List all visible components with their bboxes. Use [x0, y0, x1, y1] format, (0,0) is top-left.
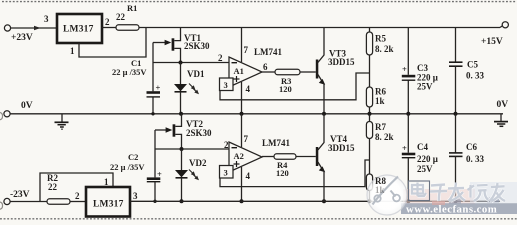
svg-text:0. 33: 0. 33: [466, 154, 485, 164]
svg-text:2SK30: 2SK30: [184, 41, 210, 51]
svg-text:22 μ /35V: 22 μ /35V: [110, 162, 145, 172]
svg-text:C5: C5: [467, 60, 478, 70]
op-amp A1 LM741: [229, 57, 262, 87]
resistor R2: [47, 199, 70, 204]
capacitor C1: [147, 91, 161, 94]
char 友: [490, 183, 506, 201]
svg-text:LM317: LM317: [93, 200, 124, 210]
svg-text:+: +: [156, 83, 161, 93]
transistor VT4 3DD15 (NPN): [316, 147, 319, 166]
svg-text:4: 4: [246, 84, 251, 94]
svg-text:8. 2k: 8. 2k: [375, 132, 394, 142]
wire -15V rail: [130, 200, 500, 202]
regulator U1 LM317 (top): [57, 14, 102, 43]
svg-text:3DD15: 3DD15: [328, 57, 355, 67]
svg-text:+: +: [402, 143, 407, 153]
svg-text:LM317: LM317: [63, 25, 94, 35]
node VD1/0V: [179, 112, 183, 116]
svg-text:220 μ: 220 μ: [417, 154, 438, 164]
svg-text:VD2: VD2: [189, 158, 207, 168]
node pin3 box A2: [220, 166, 234, 179]
svg-text:3: 3: [224, 80, 228, 90]
wire LM317-2 adj pin1: [40, 173, 113, 202]
wire reference node (bottom): [155, 148, 229, 150]
wire A1 pin7 to +15V rail: [241, 28, 243, 63]
svg-text:R6: R6: [375, 87, 386, 97]
capacitor C2: [147, 177, 161, 180]
svg-text:1k: 1k: [375, 185, 385, 195]
svg-text:3: 3: [224, 168, 228, 178]
capacitor C5: [455, 28, 457, 63]
svg-text:120: 120: [276, 168, 289, 178]
svg-text:22: 22: [116, 12, 126, 22]
svg-text:7: 7: [244, 45, 249, 55]
svg-text:LM741: LM741: [254, 47, 282, 57]
svg-text:C3: C3: [417, 63, 428, 73]
transistor VT3 3DD15 (NPN): [316, 60, 319, 79]
svg-text:7: 7: [244, 134, 249, 144]
wire feedback top: A1 pin3 to R5/R6 junction: [220, 73, 370, 100]
svg-text:A2: A2: [234, 151, 244, 161]
resistor R8: [366, 174, 372, 191]
diode VD2 (LED reference): [181, 149, 183, 170]
svg-text:LM741: LM741: [262, 138, 290, 148]
char 子: [430, 185, 447, 202]
transistor VT2 2SK30 (JFET): [155, 129, 167, 131]
svg-text:C4: C4: [417, 142, 428, 152]
transistor VT1 2SK30 (JFET): [153, 42, 166, 44]
svg-text:3DD15: 3DD15: [328, 143, 355, 153]
diode VD1 (LED reference): [180, 63, 182, 85]
svg-text:22: 22: [48, 182, 58, 192]
char 电 box: [409, 181, 430, 201]
terminal -23V: [4, 198, 10, 204]
svg-text:2: 2: [105, 17, 110, 27]
wire R2 to LM317 pin2: [70, 201, 86, 203]
svg-text:C6: C6: [466, 142, 477, 152]
resistor R3: [275, 69, 300, 74]
char 电: [412, 183, 426, 197]
wire feedback bottom: A2 pin3 to R7/R8 junction: [220, 160, 370, 187]
svg-text:2: 2: [218, 53, 223, 63]
capacitor C6: [455, 114, 457, 153]
wire LM317 pin2 to R1: [102, 27, 116, 29]
wire R3 to VT3 base: [300, 71, 316, 73]
svg-text:+: +: [157, 169, 162, 179]
svg-text:3: 3: [44, 14, 49, 24]
node pin3 box A1: [220, 78, 234, 91]
wire 0V rail: [10, 113, 503, 115]
svg-text:25V: 25V: [417, 82, 433, 92]
node ref-top junction: [179, 61, 183, 65]
svg-text:6: 6: [263, 62, 268, 72]
svg-text:0. 33: 0. 33: [466, 71, 485, 81]
svg-text:1: 1: [104, 177, 109, 187]
wire A2 pin7 to 0V: [241, 114, 243, 147]
terminal 0V left: [4, 111, 10, 117]
char 发: [448, 183, 465, 202]
svg-text:www.elecfans.com: www.elecfans.com: [406, 203, 497, 215]
svg-text:120: 120: [279, 84, 292, 94]
resistor R1: [116, 25, 139, 30]
svg-text:0V: 0V: [21, 101, 33, 111]
svg-text:-23V: -23V: [10, 190, 30, 200]
wire LM317 adj pin1: [79, 28, 146, 58]
svg-text:+15V: +15V: [481, 37, 503, 47]
svg-text:C2: C2: [128, 152, 138, 162]
regulator U2 LM317 (bottom): [86, 187, 130, 217]
wire reference node (top): [153, 62, 229, 64]
svg-text:3: 3: [133, 191, 138, 201]
svg-text:2: 2: [224, 140, 229, 150]
wire -23V to R2: [10, 201, 47, 203]
svg-text:25V: 25V: [417, 164, 433, 174]
svg-text:A1: A1: [234, 66, 244, 76]
resistor R7: [369, 114, 371, 122]
wire R4 to VT4 base: [296, 156, 316, 158]
capacitor C3: [407, 28, 409, 75]
svg-text:R7: R7: [375, 122, 386, 132]
capacitor C4: [407, 114, 409, 153]
resistor R5: [369, 28, 371, 33]
wire top rail +15V: [139, 27, 500, 29]
border top dotted: [2, 1, 516, 3]
svg-text:0V: 0V: [497, 100, 509, 110]
svg-text:2SK30: 2SK30: [186, 128, 212, 138]
svg-text:22 μ /35V: 22 μ /35V: [112, 67, 147, 77]
watermark logo elecfans: [367, 175, 517, 215]
svg-text:1: 1: [70, 46, 75, 56]
wire A2 pin4 to -rail: [241, 167, 243, 201]
wire VT2 gate drop / C2 column: [154, 130, 156, 177]
resistor R6: [366, 87, 372, 107]
ground left: [61, 114, 63, 122]
wire A1 pin4 to 0V: [241, 82, 243, 114]
wire A2 out to R4: [262, 156, 274, 158]
wire A1 out to R3: [262, 71, 275, 73]
svg-text:+23V: +23V: [11, 33, 33, 43]
node C1/0V: [151, 112, 154, 115]
svg-text:R5: R5: [375, 34, 386, 44]
wire +23V to LM317 pin3: [11, 27, 57, 29]
svg-text:4: 4: [246, 171, 251, 181]
left edge scan marks: [0, 113, 3, 120]
terminal +15V: [502, 22, 508, 28]
svg-text:2: 2: [75, 191, 80, 201]
char 烧: [468, 185, 490, 201]
svg-text:8. 2k: 8. 2k: [375, 44, 394, 54]
svg-text:1k: 1k: [375, 96, 385, 106]
svg-text:VD1: VD1: [187, 69, 205, 79]
terminal +23V: [4, 25, 10, 31]
op-amp A2 LM741: [229, 142, 262, 172]
svg-text:R1: R1: [127, 3, 137, 13]
resistor R4: [274, 154, 296, 159]
border bottom dotted: [0, 218, 517, 220]
svg-text:+: +: [402, 64, 407, 74]
wire VT1 gate drop / C1 column: [152, 43, 154, 92]
